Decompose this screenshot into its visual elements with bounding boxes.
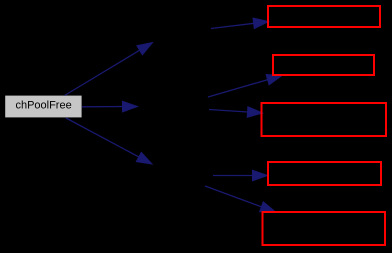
wire edge E3 chPoolFree to node3	[66, 118, 152, 164]
wire edge E4 node1 to box B1	[211, 18, 269, 29]
wire edge E5 node2 to box B2	[208, 75, 282, 97]
wire edge E8 node3 to box B5	[205, 186, 276, 212]
wire edge E1 chPoolFree to node1	[65, 43, 153, 96]
node box B1 (red)	[268, 6, 380, 27]
node box B5 (red)	[263, 212, 386, 245]
wire edge E7 node3 to box B4	[213, 170, 268, 181]
node chPoolFree	[5, 95, 82, 118]
svg-text:chPoolFree: chPoolFree	[15, 100, 71, 112]
node box B2 (red)	[273, 55, 374, 75]
node box B3 (red)	[262, 103, 387, 136]
node box B4 (red)	[268, 162, 381, 185]
wire edge E6 node2 to box B3	[209, 107, 263, 118]
wire edge E2 chPoolFree to node2	[82, 101, 138, 112]
